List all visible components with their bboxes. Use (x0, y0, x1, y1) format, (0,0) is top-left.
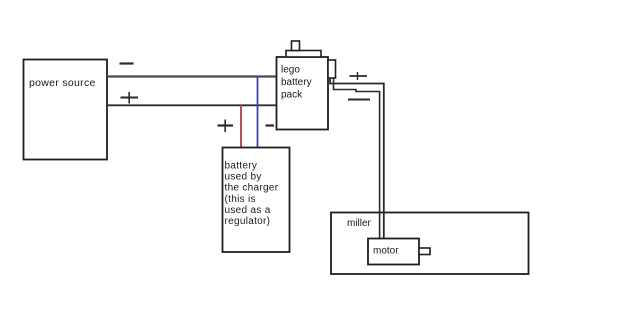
power source box (24, 60, 108, 160)
plus symbol above battery (charger regulator) (218, 120, 234, 133)
lego battery pack lid (286, 51, 321, 58)
battery (regulator) box (223, 148, 290, 253)
svg-text:used by: used by (225, 172, 262, 183)
lego battery pack box (277, 57, 329, 130)
wire negative: power source to lego battery pack (107, 75, 277, 77)
svg-text:(this is: (this is (225, 194, 256, 205)
plus symbol at power source positive terminal (121, 92, 139, 104)
minus symbol at lego pack output (348, 99, 370, 101)
miller box (331, 213, 529, 275)
svg-text:battery: battery (225, 161, 258, 172)
svg-text:used as a: used as a (225, 205, 271, 216)
wire inner: lego tab to motor (334, 78, 380, 239)
plus symbol at lego pack output (350, 72, 368, 80)
svg-text:regulator): regulator) (225, 216, 271, 227)
svg-text:motor: motor (373, 246, 399, 257)
minus symbol at power source negative terminal (120, 62, 134, 64)
motor box (368, 239, 419, 265)
wire outer: lego tab to motor (330, 78, 384, 239)
svg-text:battery: battery (281, 77, 312, 88)
motor shaft tab (419, 248, 430, 255)
svg-text:lego: lego (281, 65, 300, 76)
svg-text:the charger: the charger (225, 183, 279, 194)
lego battery pack label (281, 65, 312, 101)
lego battery pack knob (292, 41, 300, 51)
battery label (225, 161, 279, 228)
blue wire: negative wire down to battery (257, 77, 259, 148)
lego battery pack right tab (328, 60, 336, 78)
wire positive: power source to lego battery pack (107, 104, 277, 106)
svg-text:power source: power source (29, 77, 96, 89)
svg-text:pack: pack (281, 90, 303, 101)
minus symbol left of lego pack bottom (266, 124, 275, 126)
svg-text:miller: miller (347, 218, 372, 229)
red wire: positive wire down to battery (240, 105, 242, 148)
